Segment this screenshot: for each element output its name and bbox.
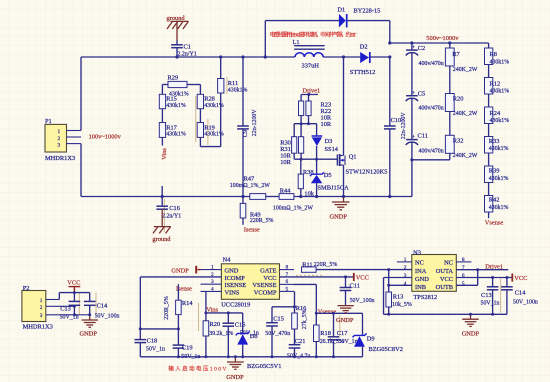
svg-text:Vins: Vins (161, 148, 168, 160)
svg-text:N3: N3 (413, 249, 421, 256)
wire (161, 109, 163, 123)
svg-text:C15: C15 (235, 321, 246, 328)
ground GNDP (P2) (80, 315, 99, 338)
resistor R16 (292, 305, 309, 345)
svg-text:400v/470n: 400v/470n (419, 106, 444, 112)
capacitor C14 (N3) (501, 278, 538, 315)
svg-text:50V_100n: 50V_100n (95, 313, 120, 319)
wire: VCC row (N4 pin7) (280, 276, 354, 278)
svg-text:ISENSE: ISENSE (225, 282, 247, 289)
wire: Q1 source to ground rail (343, 165, 345, 197)
wire (449, 66, 451, 94)
svg-text:UCC28019: UCC28019 (221, 301, 250, 308)
wire: D1 branch top loop (265, 21, 390, 57)
svg-text:C16: C16 (169, 205, 180, 212)
svg-text:R14: R14 (182, 300, 193, 307)
wire: VINS drop + node Vins (206, 291, 243, 313)
svg-text:50V_1n: 50V_1n (146, 347, 165, 353)
svg-text:6: 6 (286, 279, 289, 285)
svg-text:R20: R20 (453, 96, 464, 103)
svg-text:22n-1200V: 22n-1200V (252, 109, 258, 137)
svg-text:D2: D2 (360, 44, 368, 51)
svg-text:GNDP: GNDP (462, 330, 480, 337)
svg-text:50V_470n: 50V_470n (265, 331, 290, 337)
svg-text:39.2k_1%: 39.2k_1% (209, 331, 233, 337)
capacitor C14 (P2) (84, 293, 120, 320)
svg-text:C21: C21 (295, 338, 306, 345)
svg-text:500v~1000v: 500v~1000v (426, 35, 459, 42)
svg-text:P2: P2 (23, 285, 30, 292)
svg-text:N4: N4 (223, 257, 232, 264)
resistor R14 (164, 284, 193, 345)
svg-text:27k_5%: 27k_5% (302, 309, 308, 329)
svg-text:430k1%: 430k1% (166, 103, 186, 109)
svg-text:C5: C5 (418, 91, 425, 98)
capacitor C15 (VCOMP) (265, 307, 290, 357)
svg-text:STTH512: STTH512 (350, 69, 376, 76)
resistor R26 (203, 313, 233, 357)
resistor R15 (159, 94, 186, 109)
svg-text:+: + (412, 45, 415, 51)
svg-text:8: 8 (462, 257, 465, 263)
wire: left vertical to P1 pin1 (80, 57, 82, 131)
capacitor C17 (328, 313, 358, 357)
wire (411, 98, 413, 139)
ground GNDP (N3) (462, 314, 480, 337)
resistor R19 (197, 123, 224, 138)
capacitor C9 (237, 57, 258, 197)
svg-text:100mΩ_1%_2W: 100mΩ_1%_2W (230, 183, 270, 189)
ground (bottom earth symbol) (152, 209, 171, 243)
wire + node Vsense (485, 212, 504, 227)
capacitor C15 (Vins) (223, 313, 259, 357)
wire: Q1 drain branch (343, 57, 345, 156)
svg-text:3: 3 (58, 143, 61, 149)
labels R30 R31 10R 10R (280, 139, 291, 166)
svg-text:D9: D9 (367, 335, 375, 342)
svg-text:ground: ground (167, 15, 186, 22)
wire (411, 53, 413, 96)
svg-text:50V_1n: 50V_1n (60, 315, 79, 321)
svg-text:VCC: VCC (440, 276, 453, 283)
svg-text:C14: C14 (515, 289, 526, 296)
svg-text:R12: R12 (490, 81, 501, 88)
power VCC (N3) (512, 274, 527, 283)
resistor R20 (445, 94, 477, 118)
svg-text:R32: R32 (453, 138, 464, 145)
svg-text:R13: R13 (393, 294, 404, 301)
svg-text:输入启动电压100V: 输入启动电压100V (168, 365, 226, 373)
ground GNDP (bottom middle) (226, 357, 244, 381)
svg-text:3: 3 (40, 313, 43, 319)
svg-text:VCC: VCC (67, 279, 80, 286)
svg-text:R33: R33 (489, 138, 500, 145)
diode D2 STTH512 (350, 44, 376, 76)
svg-text:3: 3 (211, 279, 214, 285)
svg-text:R44: R44 (280, 188, 291, 195)
svg-text:C19: C19 (182, 345, 193, 352)
wire: ICOMP to C18 (140, 276, 221, 278)
svg-text:10R: 10R (280, 159, 291, 166)
wire: R8 column top (488, 43, 490, 48)
svg-text:TPS2812: TPS2812 (413, 294, 437, 301)
wire (449, 112, 451, 136)
svg-text:BZG05C8V2: BZG05C8V2 (369, 346, 403, 353)
resistor R28 (197, 94, 224, 109)
svg-text:C13: C13 (481, 292, 492, 299)
svg-text:C1: C1 (184, 43, 191, 50)
wire: D3 anode down (316, 146, 318, 159)
capacitor C21 (287, 338, 310, 360)
svg-text:Isense: Isense (244, 227, 260, 234)
labels R23 R22 10R 10R (321, 101, 332, 128)
wire: C18 mid branch (140, 328, 178, 330)
power GNDP port (N4 pin1) (171, 266, 200, 275)
wire: output rail y=43 (390, 42, 489, 44)
wire (488, 124, 490, 137)
resistor R30 (292, 137, 297, 154)
svg-text:1: 1 (40, 298, 43, 304)
svg-text:P1: P1 (45, 118, 52, 125)
svg-text:R20: R20 (210, 321, 221, 328)
wire: analog bottom rail (140, 356, 362, 358)
wire (488, 183, 490, 196)
resistor R31 (299, 137, 304, 154)
svg-text:2: 2 (404, 265, 407, 271)
wire: gate row (294, 153, 337, 159)
svg-text:1: 1 (211, 265, 214, 271)
capacitor C10 (384, 57, 407, 197)
svg-text:INB: INB (415, 284, 426, 291)
wire: P2 pin1 to VCC rail (59, 293, 89, 300)
node Drive1 (303, 87, 321, 94)
capacitor C16 (Y-cap) (156, 186, 181, 220)
svg-text:100v~1000v: 100v~1000v (89, 134, 122, 141)
op-amp U2: driver N3 TPS2812 (397, 249, 472, 300)
capacitor C11 (bulk) (406, 132, 444, 154)
wire: OUTA-OUTB tie (456, 270, 477, 286)
capacitor C1 (171, 43, 196, 57)
resistor R47 (230, 175, 270, 199)
resistor R44 (273, 188, 313, 212)
capacitor C5 (406, 90, 444, 112)
svg-text:50V_100n: 50V_100n (513, 299, 538, 305)
svg-text:8: 8 (286, 265, 289, 271)
wire: ground to C1 (176, 21, 178, 41)
resistor R29 (162, 75, 200, 98)
svg-text:2.2n/Y1: 2.2n/Y1 (162, 214, 181, 220)
svg-text:240K_2W: 240K_2W (453, 111, 478, 117)
diode D1 BY228-15 (337, 6, 380, 27)
svg-text:R15: R15 (166, 96, 177, 103)
svg-text:电感线圈用BB42磁环绕制，中间并气隙，约30T: 电感线圈用BB42磁环绕制，中间并气隙，约30T (270, 30, 357, 38)
svg-text:337uH: 337uH (302, 62, 320, 69)
svg-text:BZG05C5V1: BZG05C5V1 (247, 363, 281, 370)
svg-text:C13: C13 (60, 306, 71, 313)
svg-text:VCOMP: VCOMP (254, 290, 277, 297)
svg-text:GNDP: GNDP (80, 330, 98, 337)
wire: P1 pin3 down to ground rail (80, 144, 82, 197)
svg-text:Drive1: Drive1 (485, 263, 503, 270)
svg-text:Drive1: Drive1 (303, 87, 321, 94)
resistor R39 (485, 166, 509, 183)
capacitor C13 (N3) (481, 278, 500, 315)
svg-text:MHDR1X3: MHDR1X3 (45, 155, 75, 162)
resistor R23 (299, 101, 304, 116)
svg-text:D8: D8 (250, 333, 258, 340)
svg-text:GNDP: GNDP (330, 214, 348, 221)
svg-text:C11: C11 (350, 283, 360, 290)
wire: R29 corners (161, 85, 163, 95)
svg-text:GNDP: GNDP (171, 268, 189, 275)
svg-text:VSENSE: VSENSE (252, 282, 276, 289)
svg-text:VCC: VCC (514, 275, 527, 282)
svg-text:VINS: VINS (225, 290, 240, 297)
svg-text:R24: R24 (490, 110, 501, 117)
svg-text:STW12N120K5: STW12N120K5 (346, 169, 388, 176)
wire: VCOMP drop (272, 291, 295, 306)
wire: R32 bottom link (412, 153, 450, 160)
wire: N3 VCC row (456, 277, 512, 279)
resistor R12 (485, 78, 510, 95)
wire (488, 65, 490, 78)
svg-text:C2: C2 (418, 45, 425, 52)
wire (488, 94, 490, 107)
diode D3 SS14 (312, 136, 339, 153)
wire (199, 109, 201, 123)
svg-text:400v/470n: 400v/470n (419, 148, 444, 154)
svg-text:50V_4.7u: 50V_4.7u (287, 354, 310, 360)
svg-text:GATE: GATE (260, 268, 276, 275)
resistor R33 (485, 137, 509, 154)
capacitor C2 (406, 43, 444, 67)
svg-text:NC: NC (415, 260, 424, 267)
svg-text:GND: GND (415, 276, 429, 283)
svg-text:OUTB: OUTB (436, 284, 453, 291)
wire: N3 INB tie (389, 284, 412, 286)
svg-text:MHDR1X3: MHDR1X3 (23, 324, 53, 331)
wire: ground rail y=196.5 (81, 196, 412, 198)
capacitor C13 (P2) (60, 293, 81, 321)
svg-text:1: 1 (404, 257, 407, 263)
svg-text:400v/470n: 400v/470n (419, 61, 444, 67)
svg-text:430k1%: 430k1% (490, 89, 510, 95)
svg-text:430k1%: 430k1% (490, 59, 510, 65)
svg-text:D5: D5 (324, 172, 332, 179)
wire: VSENSE to divider + node Vsense (294, 284, 363, 315)
svg-text:L1: L1 (293, 39, 300, 46)
svg-text:100mΩ_1%_2W: 100mΩ_1%_2W (273, 205, 313, 211)
diode D5 SMBJ15CA (310, 159, 349, 196)
svg-text:4: 4 (404, 281, 407, 287)
svg-text:C18: C18 (147, 338, 158, 345)
svg-text:R42: R42 (489, 197, 500, 204)
svg-text:220R_5%: 220R_5% (250, 218, 274, 224)
svg-text:240K_2W: 240K_2W (453, 67, 478, 73)
svg-text:INA: INA (415, 268, 427, 275)
svg-text:NC: NC (444, 260, 453, 267)
svg-text:240K_2W: 240K_2W (453, 153, 478, 159)
resistor R18 (314, 313, 344, 357)
svg-text:C17: C17 (337, 330, 348, 337)
svg-text:GNDP: GNDP (226, 374, 244, 381)
wire + node Vins (161, 137, 163, 145)
connector P1 MHDR1X3 (45, 118, 81, 162)
wire: gate drive top row (301, 95, 318, 102)
svg-text:GND: GND (225, 268, 239, 275)
svg-text:50V_1n: 50V_1n (339, 339, 358, 345)
resistor R49 (240, 197, 273, 225)
svg-text:R47: R47 (244, 175, 255, 182)
inductor L1 337uH (293, 39, 325, 70)
svg-text:C11: C11 (418, 132, 428, 139)
op-amp U1: controller N4 UCC28019 (201, 257, 295, 309)
resistor R13 (386, 270, 412, 315)
wire: R19 to R11 bottom link (200, 93, 220, 147)
svg-text:430k1%: 430k1% (489, 176, 509, 182)
wire (488, 153, 490, 166)
wire: N3 GND loop (384, 278, 507, 315)
svg-text:C10: C10 (391, 117, 402, 124)
svg-text:10k: 10k (304, 190, 314, 197)
capacitor C11 (VCC decoupling) (340, 277, 375, 306)
svg-text:R39: R39 (489, 168, 500, 175)
svg-text:OUTA: OUTA (436, 268, 454, 275)
resistor R17 (159, 123, 186, 138)
svg-text:SS14: SS14 (325, 146, 339, 153)
svg-text:430k1%: 430k1% (489, 146, 509, 152)
wire: C1 to main rail (176, 48, 178, 57)
svg-text:10R: 10R (321, 121, 332, 128)
wire: middle drive row (294, 116, 316, 137)
resistor R38 (298, 159, 315, 197)
svg-text:1: 1 (58, 129, 61, 135)
svg-text:ICOMP: ICOMP (225, 275, 246, 282)
svg-text:50V_100n: 50V_100n (350, 298, 375, 304)
svg-text:D3: D3 (325, 138, 333, 145)
svg-text:R11: R11 (228, 80, 238, 87)
resistor R32 (445, 135, 477, 159)
resistor R11 220R (gate series) (302, 261, 338, 272)
svg-text:ground: ground (152, 236, 171, 243)
svg-text:430k1%: 430k1% (166, 132, 186, 138)
ground GNDP (C11) (336, 306, 354, 324)
diode D9 BZG05C8V2 (353, 313, 403, 357)
capacitor C19 (173, 345, 201, 360)
svg-text:10k_5%: 10k_5% (392, 302, 412, 308)
svg-text:R7: R7 (452, 51, 460, 58)
svg-text:2: 2 (40, 305, 43, 311)
ground GNDP (under Q1) (330, 197, 350, 221)
svg-text:+: + (412, 90, 415, 96)
resistor R8 (485, 48, 510, 65)
resistor R42 (485, 196, 509, 213)
diode D8 BZG05C5V1 (236, 313, 282, 370)
svg-text:C14: C14 (97, 303, 108, 310)
resistor R22 (306, 101, 311, 116)
svg-text:5: 5 (286, 287, 289, 293)
wire: main input rail y=57 (81, 56, 390, 58)
svg-text:D1: D1 (337, 6, 345, 13)
capacitor C18 (135, 277, 166, 357)
wire: cap column bottom (411, 142, 413, 196)
svg-text:VCC: VCC (356, 275, 369, 282)
svg-text:50V_1n: 50V_1n (481, 300, 500, 306)
svg-text:SMBJ15CA: SMBJ15CA (318, 185, 350, 192)
svg-text:22n-1200V: 22n-1200V (401, 112, 407, 140)
resistor R24 (485, 107, 510, 124)
svg-text:R28: R28 (204, 96, 215, 103)
svg-text:430k1%: 430k1% (489, 205, 509, 211)
svg-text:+: + (412, 134, 415, 140)
svg-text:Vsense: Vsense (485, 220, 504, 227)
svg-text:R8: R8 (490, 51, 497, 58)
power VCC (P2) (67, 279, 80, 292)
wire: gate to INA (316, 269, 412, 271)
svg-text:R11: R11 (302, 261, 312, 268)
power VCC (mid) (354, 273, 369, 282)
svg-text:R17: R17 (166, 124, 177, 131)
svg-text:Q1: Q1 (349, 154, 357, 161)
svg-text:C15: C15 (273, 316, 284, 323)
resistor R7 (445, 43, 477, 73)
transistor Q1 STW12N120K5 (337, 154, 387, 176)
svg-text:GNDP: GNDP (336, 317, 354, 324)
connector P2 MHDR1X3 (22, 285, 90, 331)
svg-text:R19: R19 (204, 124, 215, 131)
ground (top earth symbol) (167, 15, 189, 29)
svg-text:220R_5%: 220R_5% (314, 262, 338, 268)
svg-text:430k1%: 430k1% (490, 118, 510, 124)
wire: OUTA Drive1 (456, 263, 508, 270)
svg-text:C9: C9 (242, 130, 249, 137)
resistor R11 (218, 57, 248, 94)
svg-text:4: 4 (211, 287, 214, 293)
svg-text:2: 2 (58, 136, 61, 142)
svg-text:BY228-15: BY228-15 (353, 8, 380, 15)
svg-text:220R_5%: 220R_5% (164, 296, 170, 320)
svg-text:VCC: VCC (263, 275, 276, 282)
tan artifact marks (79, 77, 500, 337)
svg-text:R29: R29 (168, 75, 179, 82)
svg-text:430k1%: 430k1% (228, 88, 248, 94)
